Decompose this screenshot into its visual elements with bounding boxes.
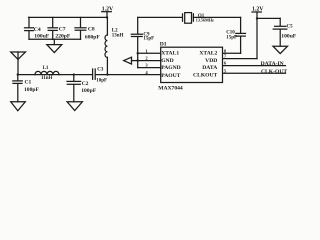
svg-text:C5: C5 bbox=[287, 25, 294, 30]
svg-text:MAX7044: MAX7044 bbox=[158, 85, 183, 91]
svg-text:15pF: 15pF bbox=[226, 36, 237, 41]
svg-text:10pF: 10pF bbox=[96, 79, 107, 84]
svg-text:C2: C2 bbox=[82, 81, 89, 87]
svg-text:XTAL1: XTAL1 bbox=[161, 51, 179, 57]
svg-text:C1: C1 bbox=[25, 79, 32, 85]
svg-text:C8: C8 bbox=[88, 26, 95, 32]
svg-text:15pF: 15pF bbox=[143, 37, 154, 42]
svg-text:C7: C7 bbox=[59, 27, 66, 33]
svg-text:CLKOUT: CLKOUT bbox=[193, 72, 218, 78]
svg-text:1.2V: 1.2V bbox=[252, 7, 264, 13]
svg-text:L1: L1 bbox=[43, 66, 49, 71]
svg-text:PAOUT: PAOUT bbox=[161, 73, 180, 79]
svg-text:100uF: 100uF bbox=[281, 34, 297, 40]
svg-text:11nH: 11nH bbox=[41, 76, 53, 81]
svg-text:220pF: 220pF bbox=[55, 33, 71, 39]
svg-text:13.56MHz: 13.56MHz bbox=[196, 18, 214, 23]
svg-text:PAGND: PAGND bbox=[161, 65, 180, 71]
svg-text:DATA: DATA bbox=[202, 65, 217, 71]
svg-text:D1: D1 bbox=[160, 41, 167, 47]
svg-text:C4: C4 bbox=[34, 27, 41, 33]
svg-text:100uF: 100uF bbox=[34, 33, 50, 39]
svg-text:680pF: 680pF bbox=[85, 35, 101, 41]
svg-text:VDD: VDD bbox=[205, 58, 217, 64]
svg-text:100pF: 100pF bbox=[81, 88, 97, 94]
svg-text:13nH: 13nH bbox=[112, 34, 124, 39]
svg-text:1.2V: 1.2V bbox=[102, 6, 114, 12]
svg-text:C3: C3 bbox=[97, 67, 104, 72]
svg-text:DATA-IN: DATA-IN bbox=[261, 61, 284, 67]
svg-text:XTAL2: XTAL2 bbox=[199, 51, 217, 57]
svg-text:GND: GND bbox=[161, 58, 173, 64]
svg-text:CLK-OUT: CLK-OUT bbox=[261, 69, 287, 75]
svg-text:100pF: 100pF bbox=[24, 87, 40, 93]
